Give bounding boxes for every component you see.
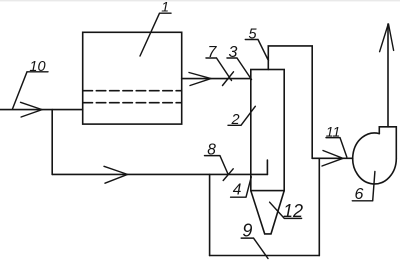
recycle wire left (209, 174, 211, 255)
svg-text:9: 9 (242, 221, 252, 241)
gas outlet duct 5 (268, 46, 312, 158)
fan 6 (blower volute) (353, 133, 397, 184)
svg-text:12: 12 (283, 201, 303, 221)
cyclone body 2 (251, 70, 284, 191)
svg-text:7: 7 (208, 44, 218, 61)
svg-text:10: 10 (29, 59, 45, 75)
internal pipe stub (4) (266, 160, 268, 174)
cyclone cone 12 (251, 191, 284, 234)
dashed level line lower (83, 102, 182, 104)
label 5 leader (245, 40, 268, 61)
outlet wire from box (stream 7) (182, 78, 251, 80)
label 4 leader (231, 177, 252, 197)
label 6 leader (352, 172, 375, 201)
svg-text:5: 5 (248, 26, 257, 42)
exhaust arrow (380, 24, 394, 52)
label 10 leader (13, 72, 49, 109)
exhaust riser wire (387, 24, 389, 127)
label 8 leader (205, 156, 234, 181)
svg-text:4: 4 (233, 182, 242, 199)
svg-text:8: 8 (207, 141, 216, 158)
recycle wire right (318, 158, 320, 255)
branch wire down (51, 110, 53, 175)
label 11 leader (326, 138, 347, 157)
label 3 leader (227, 58, 252, 80)
label 1 leader (140, 13, 171, 56)
flow arrow on inlet (21, 102, 43, 117)
lower feed wire (stream 8) (52, 173, 267, 175)
flow arrow to fan (322, 151, 343, 167)
label 7 leader (206, 58, 234, 86)
inlet wire (stream 10) (0, 109, 83, 111)
svg-text:1: 1 (161, 0, 169, 15)
svg-text:11: 11 (326, 123, 341, 139)
dashed level line upper (83, 90, 182, 92)
svg-text:6: 6 (355, 186, 364, 203)
label 12 leader (270, 202, 302, 218)
svg-text:2: 2 (230, 112, 239, 128)
label 9 leader (241, 238, 268, 258)
flow arrow on outlet (189, 73, 211, 86)
flow arrow on lower feed (104, 166, 128, 183)
fan feed wire (stream 11) (312, 157, 353, 159)
recycle wire bottom (stream 9) (210, 255, 320, 257)
apparatus box 1 (drying chamber) (83, 32, 182, 124)
svg-text:3: 3 (229, 44, 238, 61)
fan outlet notch (379, 127, 396, 159)
label 2 leader (228, 106, 255, 125)
